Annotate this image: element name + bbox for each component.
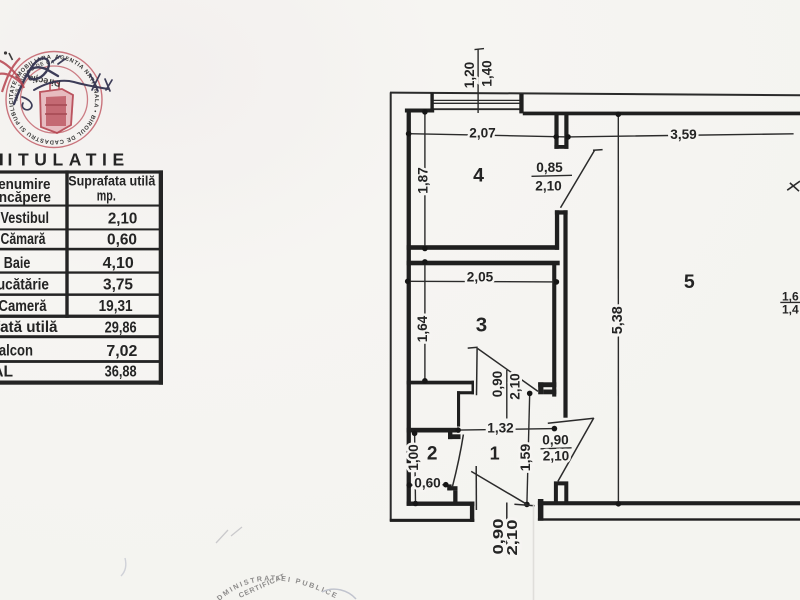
svg-text:1,40: 1,40 bbox=[480, 60, 496, 87]
svg-text:1,64: 1,64 bbox=[415, 316, 431, 343]
door swing room 3 (0,90) bbox=[468, 346, 478, 349]
svg-text:1,4: 1,4 bbox=[782, 302, 799, 316]
svg-text:1: 1 bbox=[490, 443, 500, 463]
svg-text:0,60: 0,60 bbox=[414, 476, 441, 492]
svg-text:0,90: 0,90 bbox=[542, 433, 569, 449]
svg-text:2,10: 2,10 bbox=[543, 449, 570, 465]
room4 right wall upper bar with U pocket bbox=[554, 115, 558, 149]
door swing room 4 (0,85) bbox=[561, 150, 595, 208]
room 4 bottom wall bbox=[407, 245, 559, 250]
svg-text:0,90: 0,90 bbox=[490, 371, 506, 398]
red round stamp (ANCPI) bbox=[6, 52, 102, 148]
faint bottom oval stamp bbox=[121, 558, 356, 600]
dim line 1,00 bbox=[414, 433, 417, 503]
dim line 1,64 bbox=[424, 262, 426, 381]
svg-text:încăpere: încăpere bbox=[0, 190, 51, 206]
dimension labels bbox=[406, 60, 800, 556]
bottom wall below rooms 2/1 bbox=[407, 502, 475, 506]
svg-text:2,05: 2,05 bbox=[467, 269, 494, 285]
svg-text:TOTAL: TOTAL bbox=[0, 363, 13, 380]
svg-text:3,59: 3,59 bbox=[670, 127, 697, 143]
bottom outer line right bbox=[538, 518, 800, 520]
left wall of rooms 4/3/2 bbox=[407, 109, 411, 506]
stamp emblem bbox=[40, 81, 73, 133]
svg-text:ITULATIE: ITULATIE bbox=[8, 150, 130, 170]
svg-text:mp.: mp. bbox=[97, 189, 116, 205]
svg-text:3,75: 3,75 bbox=[103, 277, 133, 294]
svg-text:1,87: 1,87 bbox=[416, 167, 432, 194]
window right cap bbox=[519, 94, 523, 113]
window dim line 1,20/1,40 bbox=[477, 49, 479, 113]
bottom outer line left bbox=[390, 519, 475, 522]
svg-text:5,38: 5,38 bbox=[610, 306, 626, 334]
svg-text:7,02: 7,02 bbox=[106, 343, 137, 360]
dim line 1,87 bbox=[424, 112, 426, 249]
room 4 top wall bbox=[405, 109, 434, 113]
svg-text:2,07: 2,07 bbox=[469, 125, 496, 141]
svg-text:Cameră: Cameră bbox=[0, 298, 47, 315]
svg-text:0,60: 0,60 bbox=[107, 232, 137, 249]
dim line 1,59 bbox=[527, 393, 530, 504]
small ink mark top-left bbox=[4, 51, 13, 60]
svg-text:2: 2 bbox=[427, 444, 438, 465]
svg-text:2,10: 2,10 bbox=[504, 520, 521, 556]
dim line 0,60 bbox=[409, 484, 446, 486]
balcony door swing (0,90) bbox=[475, 466, 477, 510]
outer contour top line bbox=[390, 93, 800, 96]
signature scribble over stamp bbox=[14, 56, 112, 110]
room5 left wall bbox=[563, 210, 567, 417]
svg-text:29,86: 29,86 bbox=[105, 320, 137, 337]
red scribble at left edge bbox=[0, 58, 24, 92]
faint pencil dashes bbox=[216, 527, 242, 543]
room 3 top wall bbox=[407, 261, 560, 266]
svg-text:1,6: 1,6 bbox=[782, 289, 799, 303]
dimension lines bbox=[405, 49, 794, 508]
svg-text:0,85: 0,85 bbox=[536, 160, 563, 176]
svg-text:Suprafata utilă: Suprafata utilă bbox=[68, 174, 155, 190]
svg-text:1,20: 1,20 bbox=[462, 62, 478, 89]
top wall inner thick line bbox=[523, 112, 800, 116]
partition room3/room5 bbox=[552, 263, 556, 397]
door swing hall to room 5 (0,90) bbox=[548, 418, 594, 423]
svg-text:1,32: 1,32 bbox=[487, 420, 514, 436]
svg-text:Baie: Baie bbox=[4, 255, 31, 272]
svg-text:4: 4 bbox=[473, 164, 484, 186]
dim line 1,32 bbox=[458, 429, 554, 431]
svg-text:2,10: 2,10 bbox=[108, 210, 138, 227]
heading RECAPITULATIE (cropped) bbox=[0, 154, 3, 166]
svg-text:Bucătărie: Bucătărie bbox=[0, 276, 49, 293]
floor plan group bbox=[390, 92, 800, 522]
wall bump between hall and room 5 bbox=[556, 483, 566, 503]
outer contour left wall bbox=[390, 92, 392, 521]
svg-text:1,59: 1,59 bbox=[518, 444, 534, 472]
balcony door right cap bbox=[538, 499, 544, 521]
door 0,85 jamb bbox=[555, 210, 568, 214]
dim line 2,07 / 3,59 bbox=[409, 134, 794, 137]
faint vertical crease bbox=[533, 504, 535, 600]
svg-text:1,00: 1,00 bbox=[406, 444, 422, 471]
dim line 5,38 vertical bbox=[617, 114, 619, 504]
svg-text:Balcon: Balcon bbox=[0, 343, 33, 360]
svg-text:Suprafată utilă: Suprafată utilă bbox=[0, 319, 58, 336]
table: area recapitulation bbox=[0, 170, 163, 384]
svg-text:5: 5 bbox=[684, 271, 695, 293]
window left cap bbox=[430, 93, 433, 110]
room 2 door lower jamb bbox=[447, 484, 451, 490]
svg-text:Cămară: Cămară bbox=[1, 231, 46, 248]
svg-text:2,10: 2,10 bbox=[507, 373, 523, 400]
room 3 bottom wall with jog bbox=[407, 381, 474, 385]
svg-text:19,31: 19,31 bbox=[99, 298, 133, 315]
cut-off door mark at right edge bbox=[787, 181, 800, 190]
room 5 bottom wall bbox=[538, 501, 800, 505]
svg-text:4,10: 4,10 bbox=[103, 255, 134, 272]
dim line 2,05 bbox=[408, 280, 557, 283]
door swing room 2 (0,60) bbox=[452, 435, 463, 488]
svg-text:36,88: 36,88 bbox=[105, 364, 137, 381]
svg-text:2,10: 2,10 bbox=[535, 179, 562, 195]
svg-text:Vestibul: Vestibul bbox=[1, 210, 50, 227]
svg-text:3: 3 bbox=[476, 314, 487, 337]
room 2 top wall with jog bbox=[407, 428, 457, 433]
window glazing lines bbox=[434, 99, 520, 101]
